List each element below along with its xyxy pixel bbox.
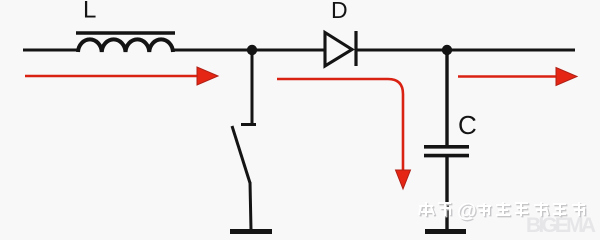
wire: inductor to diode anode: [173, 49, 325, 52]
wire: switch lower lead: [250, 182, 251, 230]
current arrow: input (left, red): [25, 67, 218, 85]
svg-text:D: D: [331, 0, 348, 23]
current arrow: output (right, red): [458, 68, 577, 86]
current arrow: through diode bending down (middle, red): [277, 79, 411, 189]
wire: capacitor upper lead: [445, 50, 448, 145]
ground (capacitor): [425, 229, 466, 234]
switch fixed contact tick: [241, 123, 256, 126]
node A (junction of inductor, switch, diode): [247, 45, 257, 55]
wire: switch upper lead: [251, 50, 254, 123]
wire: diode cathode to output end: [356, 49, 575, 52]
inductor L (4 humps): [78, 39, 173, 52]
svg-text:L: L: [83, 0, 96, 24]
svg-text:@: @: [457, 200, 477, 222]
switch arm (open): [232, 126, 250, 183]
svg-text:BIGEMA: BIGEMA: [526, 214, 596, 235]
watermark: zhihu embossed text (simulated glyph strokes): [419, 200, 586, 223]
ground (switch): [230, 229, 272, 234]
svg-text:C: C: [458, 110, 477, 140]
capacitor C plates: [424, 147, 469, 156]
diode D: [325, 31, 356, 66]
wire: input segment left of inductor: [23, 49, 79, 52]
wire: capacitor lower lead: [445, 157, 448, 230]
inductor core bar: [76, 31, 175, 34]
node B (junction of diode, capacitor, output): [442, 45, 452, 55]
